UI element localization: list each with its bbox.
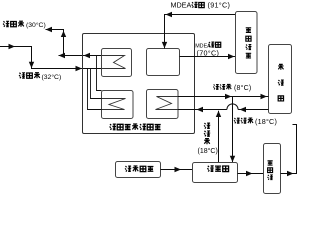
coil in box 1 <box>102 56 126 69</box>
arrowhead right into water cooler <box>261 94 268 99</box>
wire: riser from heat exchanger up to 18C line <box>218 111 220 163</box>
svg-text:(30°C): (30°C) <box>26 21 46 29</box>
arrowhead up on riser x=63 <box>61 31 66 37</box>
box: decarbonization system (脱碳系统) <box>236 12 258 74</box>
arrowhead right before branch <box>225 94 232 99</box>
arrowhead up at top of riser <box>216 111 221 117</box>
inner box 4: evaporator <box>147 90 179 119</box>
coil in box 3 <box>102 99 126 110</box>
svg-text:MDEA: MDEA <box>171 1 192 10</box>
arrowhead right on gas line <box>175 167 182 172</box>
arrowhead left right of arc <box>240 107 247 112</box>
box: water cooler (水冷器) <box>269 45 292 114</box>
svg-text:(91°C): (91°C) <box>208 1 231 10</box>
wire: cooling water 32C in line <box>0 47 102 69</box>
big box: LiBr chiller unit (溴化锂制冷机组) <box>83 34 195 134</box>
arrowhead left at corner x=63 <box>59 53 66 58</box>
wire: internal riser V2 to absorber top tail <box>91 69 102 99</box>
svg-text:(18°C): (18°C) <box>255 117 277 126</box>
arrowhead down into heat exchanger <box>230 156 235 162</box>
label: cooling water 30C (冷却水 (30℃)) <box>3 21 46 29</box>
label: MDEA solution 70C (MDEA溶液 (70℃)) <box>195 42 221 58</box>
arrowhead right on discharge <box>287 171 294 176</box>
label: 溴化锂制冷机组 under box <box>110 124 161 130</box>
svg-text:(32°C): (32°C) <box>42 73 62 81</box>
arrowhead right into decarb box <box>228 54 235 59</box>
box: heat exchanger (换热器) <box>193 163 238 183</box>
arrowhead down into generator <box>162 42 167 48</box>
wire: chilled water 8C line evaporator to water cooler <box>178 96 269 98</box>
box: compressor (压缩机) <box>264 144 281 194</box>
arrowhead right entering big box <box>76 66 83 71</box>
arrowhead left into big box <box>197 107 204 112</box>
inner box 3: absorber <box>102 91 134 119</box>
label: MDEA solution 91C (MDEA溶液 (91℃)) <box>171 1 231 10</box>
wire: cooling water 30C out line <box>46 30 64 56</box>
inner box 2: generator <box>147 49 180 76</box>
wire: chilled water 18C return line with jump arc <box>238 109 268 111</box>
inner box 1: condenser <box>102 49 132 77</box>
label: cooling water 32C (冷却水 (32℃)) <box>19 72 61 80</box>
arrowhead down at x=31 drop <box>29 62 34 68</box>
coil in box 4 <box>156 97 179 110</box>
arrowhead left at big box edge <box>84 53 91 58</box>
wire: line A condenser to outside (y=55) <box>59 55 102 57</box>
svg-text:(18°C): (18°C) <box>198 147 218 155</box>
wire: heat exchanger to compressor <box>238 173 264 175</box>
arrowhead right into compressor <box>246 171 253 176</box>
arrowhead left at 30C line end <box>46 27 53 32</box>
wire: 8C branch down to heat exchanger <box>232 97 234 163</box>
label: chilled water 18C vertical by riser <box>198 123 218 155</box>
wire: gas line to heat exchanger <box>161 169 193 171</box>
jump arc over branch <box>227 104 238 110</box>
arrowhead right on 32C inlet <box>9 44 16 49</box>
wire: internal riser V3 from line A to absorber top <box>97 56 102 91</box>
label: chilled water 8C (冷冻水 (8℃)) <box>213 84 251 92</box>
wire: MDEA 70C line generator to decarb <box>180 56 236 58</box>
arrowhead left on 91C line <box>166 12 173 17</box>
wire: compressor discharge to cropped box <box>281 125 297 174</box>
box: semi-water gas (半水煤气) <box>116 162 161 178</box>
wire: internal riser V1 to absorber bottom tail <box>88 69 102 110</box>
wire: MDEA 91C line from decarb to generator <box>165 15 236 49</box>
svg-text:(8°C): (8°C) <box>234 84 251 92</box>
label: chilled water 18C (冷冻水 (18℃)) horizontal <box>234 117 277 126</box>
